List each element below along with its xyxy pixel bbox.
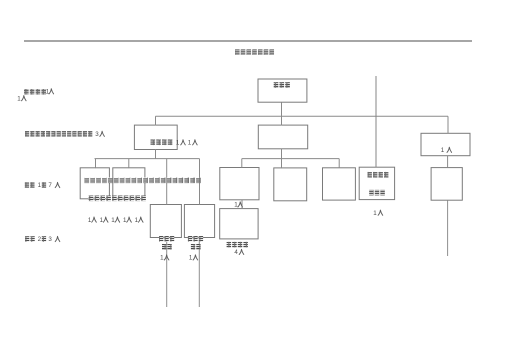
box A 前厅部 <box>220 168 259 200</box>
title 酒店组织机构图 <box>235 49 274 55</box>
wire GM drop <box>281 102 283 116</box>
wire drop b1 <box>95 159 97 169</box>
count 1人 b after 餐饮总监 <box>188 139 197 146</box>
svg-text:1: 1 <box>17 95 21 102</box>
label 工程部 <box>159 236 174 242</box>
svg-text:1: 1 <box>123 217 127 224</box>
label 经理2级 part2 <box>42 236 46 242</box>
box 采购部经理 <box>113 168 145 199</box>
text 人事行政 <box>368 172 389 178</box>
text 部经理 <box>369 190 385 196</box>
wire drop bB <box>281 159 283 169</box>
label 经理 under 保安部 <box>191 244 201 250</box>
box right lower empty <box>431 168 462 201</box>
count 7人 in 经理1级 <box>48 182 59 189</box>
box row2 right 1人 <box>421 133 470 155</box>
svg-text:3: 3 <box>95 131 99 138</box>
count 1人 under 工程部 <box>160 255 169 262</box>
count 1人 under 总经理级 <box>46 88 54 95</box>
count 2 in 经理2级 <box>38 236 42 243</box>
box 工程部 <box>150 205 181 238</box>
label 总经理级 <box>24 89 46 95</box>
text 餐饮总监 <box>151 140 173 146</box>
wire bA to sales box <box>241 200 243 209</box>
label 副总经理营业总监副总经理级 <box>25 131 92 137</box>
count 4人 under 销售经理 <box>234 249 243 256</box>
box C 餐饮部 <box>323 168 356 200</box>
svg-text:1: 1 <box>441 147 445 154</box>
count 1人 overlap row #1 <box>88 217 96 224</box>
count 3人 after 副总经理级 <box>95 131 104 138</box>
box 销售经理 <box>220 209 258 239</box>
top rule <box>24 40 472 42</box>
count 1人 under 人事行政 <box>373 210 382 217</box>
label 经理 under 工程部 <box>162 244 172 250</box>
box 保安部 <box>184 205 214 238</box>
count 1人 under 保安部 <box>189 255 198 262</box>
wire drop bA <box>241 159 243 168</box>
svg-text:7: 7 <box>48 182 52 189</box>
svg-text:1: 1 <box>234 202 238 209</box>
text 总经理 <box>274 82 290 88</box>
label 经理1级 part1 <box>25 182 35 188</box>
wire drop bC <box>338 159 340 168</box>
count 1人 overlap row #4 <box>123 217 131 224</box>
label overlap 财务部采购部销售部总监前厅部客房部餐饮部 <box>84 178 200 184</box>
wire right inter-box <box>447 156 449 168</box>
label 经理2级 part1 <box>25 236 35 242</box>
box B 客房部 <box>274 168 307 201</box>
wire right long dangle <box>447 200 449 256</box>
svg-text:1: 1 <box>135 217 139 224</box>
wire drop to FB box <box>155 116 157 125</box>
svg-text:1: 1 <box>373 210 377 217</box>
wire drop to right box <box>447 116 449 133</box>
svg-text:1: 1 <box>100 217 104 224</box>
count 1人 line2 left <box>17 95 26 102</box>
svg-text:1: 1 <box>88 217 92 224</box>
label 经理1级 part2 <box>42 182 46 188</box>
count 1人 above 销售box <box>234 202 242 209</box>
wire long drop c1 <box>166 159 168 205</box>
label overlap 经理x5 <box>89 196 146 202</box>
svg-text:2: 2 <box>38 236 42 243</box>
box 总经理 <box>258 79 307 102</box>
wire mid box down <box>281 149 283 159</box>
svg-text:1: 1 <box>46 88 50 95</box>
box 人事行政部经理 <box>359 167 394 199</box>
wire c1 dangle <box>166 238 168 307</box>
svg-text:1: 1 <box>176 139 180 146</box>
count 1人 overlap row #2 <box>100 217 108 224</box>
wire FB box down <box>155 149 157 158</box>
box 财务部经理 <box>80 168 109 199</box>
svg-text:4: 4 <box>234 249 238 256</box>
count 1 in 经理1级 <box>38 182 42 189</box>
box row2 middle empty <box>258 125 307 149</box>
wire long drop c2 <box>199 159 201 205</box>
count 1人 overlap row #5 <box>135 217 143 224</box>
count 3人 in 经理2级 <box>48 236 59 243</box>
wire drop b2 <box>128 159 130 169</box>
label 保安部 <box>188 236 203 242</box>
wire c2 dangle <box>198 238 200 307</box>
wire main bus <box>156 115 449 117</box>
wire dangling HR feed <box>375 76 377 167</box>
svg-text:1: 1 <box>188 139 192 146</box>
svg-text:3: 3 <box>48 236 52 243</box>
label 销售经理 <box>227 242 248 248</box>
svg-text:1: 1 <box>160 255 164 262</box>
wire drop to mid box <box>281 116 283 125</box>
svg-text:1: 1 <box>38 182 42 189</box>
count 1人 in right box <box>441 147 452 154</box>
svg-text:1: 1 <box>111 217 115 224</box>
box 餐饮总监 <box>134 125 177 149</box>
svg-text:1: 1 <box>189 255 193 262</box>
count 1人 a after 餐饮总监 <box>176 139 185 146</box>
wire mid bus <box>242 158 339 160</box>
wire left bus <box>95 158 200 160</box>
count 1人 overlap row #3 <box>111 217 119 224</box>
